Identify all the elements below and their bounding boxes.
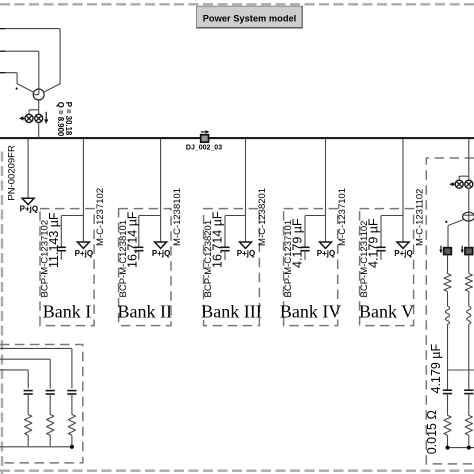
- svg-text:11.143 µF: 11.143 µF: [47, 212, 61, 268]
- wire branch to capacitor: [225, 216, 246, 248]
- svg-text:Power System model: Power System model: [203, 13, 297, 23]
- wire branch to capacitor: [305, 216, 326, 248]
- feeder PN-00209FR wire: [27, 139, 29, 198]
- feeder wire M-C-1231102: [402, 139, 404, 242]
- resistor RQB2 0.015 ohm: [465, 415, 472, 435]
- load arrow M-C-1237102: [77, 242, 89, 248]
- svg-text:Bank III: Bank III: [201, 302, 261, 322]
- wire branch to capacitor: [61, 216, 83, 248]
- transformer T1: [33, 89, 44, 100]
- load arrow M-C-1237101: [320, 242, 332, 248]
- capacitor bank enclosure Bank III: [204, 209, 260, 326]
- RC load enclosure (bottom-left): [0, 345, 83, 463]
- transformer T2: [463, 212, 474, 221]
- node: [467, 446, 471, 450]
- svg-text:Bank I: Bank I: [43, 302, 92, 322]
- subsystem frame top edge: [0, 3, 474, 5]
- wire through T2: [468, 212, 470, 221]
- load arrow M-C-1238201: [240, 242, 252, 248]
- svg-text:0.015 Ω: 0.015 Ω: [425, 410, 439, 454]
- svg-text:16.714 µF: 16.714 µF: [211, 211, 225, 268]
- wire: [447, 394, 449, 416]
- meter M2a: [455, 180, 463, 188]
- wire branch to capacitor: [381, 216, 403, 248]
- subsystem frame left edge: [1, 152, 3, 474]
- svg-text:P+jQ: P+jQ: [20, 205, 38, 214]
- breaker QA: [444, 248, 452, 255]
- node: [446, 446, 450, 450]
- svg-text:4.179 µF: 4.179 µF: [429, 344, 443, 394]
- svg-text:P+jQ: P+jQ: [152, 249, 170, 258]
- wire bus to meters: [468, 139, 470, 181]
- svg-text:Bank V: Bank V: [359, 302, 414, 322]
- measurement readout P,Q: [56, 102, 73, 137]
- svg-text:P+jQ: P+jQ: [317, 249, 335, 258]
- capacitor C1 value 11.143 µF: [57, 246, 66, 248]
- svg-text:Bank II: Bank II: [118, 302, 172, 322]
- svg-text:M-C-1237102: M-C-1237102: [95, 188, 106, 246]
- load arrow M-C-1231102: [397, 242, 409, 248]
- resistor: [25, 414, 32, 435]
- wire: [71, 435, 73, 447]
- capacitor CQB 4.179 uF: [464, 389, 473, 391]
- svg-text:P+jQ: P+jQ: [237, 249, 255, 258]
- wire neutral link: [448, 369, 474, 371]
- meter M1a: [25, 114, 33, 122]
- polarity mark: [445, 221, 447, 223]
- svg-text:PN-00209FR: PN-00209FR: [6, 145, 17, 201]
- breaker DJ_002_03: [201, 131, 207, 133]
- svg-text:M-C-1231102: M-C-1231102: [414, 189, 425, 246]
- load arrow PN-00209FR: [22, 198, 34, 204]
- feeder wire M-C-1238101: [160, 139, 162, 242]
- wire neutral bus: [0, 446, 72, 448]
- wire T1 to meters: [38, 100, 40, 114]
- capacitor C2 value 16.714 µF: [134, 246, 143, 248]
- svg-text:Bank IV: Bank IV: [280, 302, 342, 322]
- wire meter branch: [29, 110, 39, 115]
- wire phase feed: [0, 348, 72, 388]
- wire branch to capacitor: [139, 216, 161, 248]
- capacitor bank enclosure Bank V: [360, 209, 414, 326]
- wire meters to bus: [38, 122, 40, 138]
- svg-text:P+jQ: P+jQ: [394, 249, 412, 258]
- wire: [49, 435, 51, 447]
- wire: [468, 291, 470, 306]
- resistor: [47, 414, 54, 435]
- capacitor bank enclosure Bank I: [40, 209, 94, 326]
- wire phase A input: [0, 29, 60, 92]
- capacitor CQA 4.179 uF: [443, 389, 452, 391]
- capacitor: [46, 390, 55, 392]
- wire T2 secondary a: [448, 220, 463, 248]
- load arrow M-C-1238101: [155, 242, 167, 248]
- svg-text:Q = 8.900: Q = 8.900: [56, 102, 65, 137]
- bus B1 (main 475 kV busbar): [0, 137, 474, 139]
- feeder wire M-C-1238201: [245, 139, 247, 242]
- resistor RQB1: [465, 274, 472, 292]
- svg-text:M-C-1238101: M-C-1238101: [172, 188, 183, 246]
- resistor: [68, 414, 75, 435]
- feeder wire M-C-1237102: [82, 139, 84, 242]
- wire: [71, 394, 73, 414]
- filter enclosure (right): [426, 158, 474, 464]
- wire: [27, 435, 29, 447]
- wire: [468, 394, 470, 416]
- meter M1b: [35, 114, 43, 122]
- capacitor bank enclosure Bank IV: [284, 209, 338, 326]
- subsystem frame bottom edge: [0, 470, 474, 472]
- meter M2b: [465, 180, 473, 188]
- wire: [27, 394, 29, 414]
- wire meter branch: [459, 176, 469, 181]
- wire: [468, 324, 470, 390]
- wire: [468, 255, 470, 274]
- svg-text:16.714 µF: 16.714 µF: [126, 211, 140, 268]
- capacitor C3 value 16.714 µF: [220, 246, 229, 248]
- svg-text:P+jQ: P+jQ: [75, 249, 93, 258]
- wire meters to transformer: [468, 188, 470, 213]
- wire: [468, 435, 470, 447]
- inductor LQA: [445, 306, 449, 324]
- capacitor: [67, 390, 76, 392]
- resistor RQA2 0.015 ohm: [444, 415, 451, 435]
- svg-text:M-C-1237101: M-C-1237101: [337, 188, 348, 246]
- capacitor C4 value 4.179 µF: [300, 246, 309, 248]
- capacitor bank enclosure Bank II: [119, 209, 171, 326]
- wire: [447, 291, 449, 306]
- wire: [447, 324, 449, 390]
- arrow Q direction (down): [45, 112, 47, 120]
- wire neutral bus: [448, 447, 474, 449]
- arrow P direction (left): [23, 117, 25, 119]
- capacitor: [24, 390, 33, 392]
- wire: [447, 435, 449, 447]
- wire phase feed: [0, 359, 50, 388]
- subsystem label box "Power System model": [197, 6, 303, 28]
- svg-text:4.179 µF: 4.179 µF: [367, 218, 381, 268]
- svg-text:DJ_002_03: DJ_002_03: [186, 144, 222, 151]
- wire phase C input: [0, 73, 33, 92]
- breaker QB: [465, 248, 473, 255]
- wire T2 secondary b: [468, 221, 470, 247]
- polarity mark: [16, 88, 18, 90]
- svg-text:M-C-1238201: M-C-1238201: [257, 188, 268, 246]
- inductor LQB: [467, 306, 471, 324]
- arrow P direction (left): [453, 183, 456, 185]
- node: [70, 445, 74, 449]
- wire: [447, 255, 449, 274]
- capacitor C5 value 4.179 µF: [376, 246, 385, 248]
- resistor RQA1: [444, 274, 451, 292]
- svg-text:4.179 µF: 4.179 µF: [291, 218, 305, 268]
- wire: [49, 394, 51, 414]
- feeder wire M-C-1237101: [325, 139, 327, 242]
- wire phase feed: [0, 370, 28, 389]
- wire phase B input: [0, 51, 39, 88]
